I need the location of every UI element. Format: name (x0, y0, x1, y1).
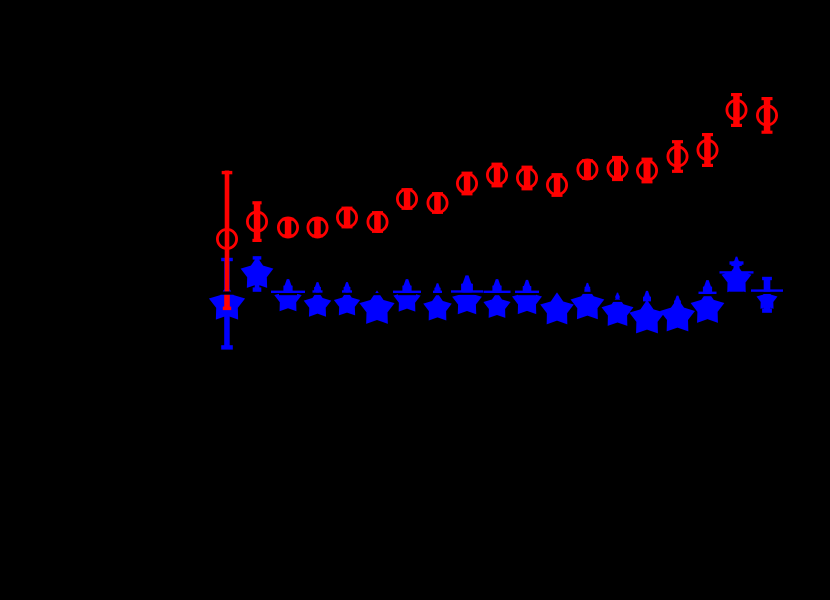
red series error bar point 15 (642, 158, 653, 184)
blue series 2 small star unit at x=437.5 (430, 283, 446, 295)
blue series 1 star marker point 11 (514, 287, 541, 312)
blue series 2 small star unit at x=736.5 (731, 257, 741, 266)
blue series 1 star marker point 9 (454, 288, 480, 313)
red series error bar point 2 (252, 201, 261, 242)
blue series 2 small star unit at x=587.4 (580, 283, 594, 294)
red series circle marker point 10 (487, 165, 506, 184)
blue series 1 star marker point 3 (276, 287, 300, 310)
red series circle marker point 15 (637, 161, 656, 180)
blue series 2 small star unit at x=288 (271, 279, 305, 295)
blue series 1 star marker point 5 (336, 292, 359, 314)
blue series 2 small star unit at x=527 (515, 280, 539, 295)
blue series 1 star marker point 13 (572, 289, 602, 318)
blue series 2 small star unit at x=377 (369, 293, 385, 295)
blue series 2 small star unit at x=707.5 (699, 280, 717, 296)
red series circle marker point 12 (547, 175, 566, 194)
red series circle marker point 18 (727, 100, 746, 119)
red series error bar point 16 (672, 140, 683, 173)
blue series 1 error bar at x=257 (253, 256, 262, 292)
red series circle marker point 8 (428, 193, 447, 212)
red series error bar point 6 (372, 211, 383, 233)
red series circle marker point 14 (608, 159, 627, 178)
blue series 2 small star unit at x=347 (339, 282, 355, 295)
red series error bar point 10 (492, 163, 503, 188)
red series error bar point 14 (612, 156, 623, 181)
red series circle marker point 2 (247, 212, 266, 231)
blue series 2 small star unit at x=647 (643, 291, 651, 302)
blue series 1 star marker point 2 (242, 259, 271, 287)
red series error bar point 9 (462, 172, 473, 196)
black gap over error bars at x=227 (221, 292, 234, 295)
blue series 1 star marker point 17 (692, 293, 722, 322)
blue series 2 small star unit at x=317.5 (310, 282, 326, 295)
blue series 2 small star unit at x=497 (484, 279, 511, 295)
red series error bar point 1 (split by gap) (222, 171, 233, 311)
red series error bar point 7 (402, 188, 413, 210)
blue series 1 star marker point 19 (758, 291, 776, 308)
blue series 1 star marker point 4 (305, 292, 329, 315)
red series circle marker point 5 (337, 208, 356, 227)
blue series 1 star marker point 1 (211, 287, 244, 318)
blue series 1 star marker point 18 (723, 266, 750, 291)
blue series 2 small star unit at x=767 (751, 283, 783, 294)
blue series 2 small star unit at x=407 (393, 279, 421, 295)
red series circle marker point 9 (457, 174, 476, 193)
red series circle marker point 6 (368, 212, 387, 231)
red series error bar point 4 (312, 218, 323, 238)
red series circle marker point 1 (217, 229, 236, 248)
blue series 1 star marker point 14 (603, 297, 632, 324)
red series circle marker point 3 (278, 218, 297, 237)
blue series 1 error bar at x=736.5 (730, 261, 744, 291)
blue series 2 small star unit at x=736.5 (720, 271, 754, 273)
red series circle marker point 13 (578, 160, 597, 179)
red series error bar point 3 (283, 218, 294, 238)
blue series 1 star marker point 10 (485, 294, 509, 317)
red series error bar point 11 (522, 166, 533, 191)
red series error bar point 5 (342, 207, 353, 229)
blue series 2 small star unit at x=467 (451, 275, 483, 295)
red series circle marker point 4 (308, 218, 327, 237)
blue series 1 star marker point 15 (631, 302, 663, 332)
blue series 1 star marker point 6 (361, 292, 393, 322)
blue series 1 star marker point 16 (662, 300, 694, 330)
red series error bar point 8 (432, 192, 443, 214)
red series circle marker point 11 (517, 168, 536, 187)
blue series 1 star marker point 7 (395, 288, 419, 311)
red series error bar point 19 (762, 97, 773, 134)
blue series 1 error bar at x=227 (221, 258, 233, 350)
red series error bar point 18 (731, 93, 742, 127)
blue series 2 small star unit at x=677.5 (674, 296, 681, 305)
red series circle marker point 16 (668, 147, 687, 166)
red series circle marker point 19 (757, 106, 776, 125)
blue series 1 star marker point 12 (542, 294, 572, 323)
red series circle marker point 7 (397, 189, 416, 208)
red series error bar point 13 (582, 159, 593, 180)
blue series 2 small star unit at x=617.5 (613, 293, 623, 302)
blue series 1 error bar at x=767 (762, 277, 772, 313)
red series error bar point 17 (702, 133, 713, 167)
red series error bar point 12 (552, 173, 563, 197)
blue series 1 star marker point 8 (425, 295, 450, 319)
red series circle marker point 17 (698, 140, 717, 159)
